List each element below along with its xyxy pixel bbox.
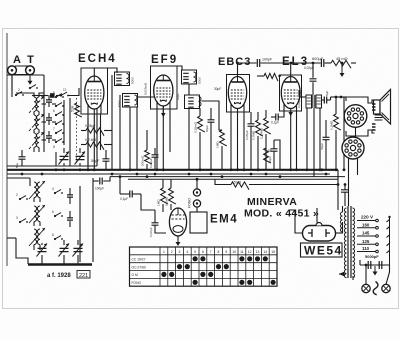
phono jacks FONO — [188, 178, 201, 208]
svg-text:5000: 5000 — [198, 77, 202, 84]
shield box ECH4 — [81, 68, 108, 114]
svg-text:50A: 50A — [71, 105, 75, 112]
wire screen feed — [274, 140, 280, 170]
coil L6 — [29, 228, 45, 250]
svg-text:8µF: 8µF — [325, 90, 329, 96]
svg-text:0,2 MΩ: 0,2 MΩ — [85, 138, 96, 142]
resistor 0,15MΩ — [260, 110, 271, 170]
svg-text:OC-27/60: OC-27/60 — [132, 265, 146, 269]
wire EL3 leads — [284, 63, 293, 170]
band switch S1 contacts — [55, 94, 64, 134]
svg-text:0,05µF: 0,05µF — [245, 130, 249, 140]
wire EF9 pins to bus — [157, 109, 170, 170]
svg-text:4: 4 — [52, 187, 54, 191]
tube ECH4 — [85, 76, 104, 109]
svg-text:0,7MΩ: 0,7MΩ — [252, 130, 256, 140]
label box WE54 — [301, 243, 343, 258]
label 10µF — [176, 93, 180, 100]
svg-text:6: 6 — [202, 250, 204, 254]
svg-text:15mΩ: 15mΩ — [232, 181, 242, 185]
tube EM4 magic eye — [169, 208, 186, 236]
svg-text:100µF: 100µF — [95, 187, 104, 191]
svg-text:1: 1 — [163, 250, 165, 254]
capacitor field bypass — [320, 120, 330, 170]
svg-text:WE54: WE54 — [304, 244, 343, 258]
table row labels — [132, 258, 146, 286]
variable capacitor CV2 — [59, 240, 70, 264]
resistor 0,05µF coupling — [81, 124, 112, 136]
antenna terminals A T — [8, 54, 41, 75]
tube EF9 — [154, 75, 173, 106]
svg-text:0,02µF: 0,02µF — [297, 98, 301, 108]
pilot lamp jack a — [362, 264, 370, 293]
wire tuner block 1 frame — [7, 75, 97, 166]
svg-text:145: 145 — [362, 231, 370, 236]
svg-text:MINERVA: MINERVA — [247, 196, 297, 208]
svg-text:221: 221 — [79, 273, 88, 279]
wire tuner block 2 outline — [7, 178, 93, 262]
svg-text:FONO: FONO — [132, 281, 142, 285]
ground bus tuner — [16, 238, 92, 265]
capacitor antenna series — [50, 93, 55, 98]
tube socket S-sp — [344, 105, 367, 128]
resistor 0,2MΩ — [81, 138, 112, 150]
svg-text:125: 125 — [362, 239, 370, 244]
capacitor 100pF top coupling — [238, 58, 292, 68]
svg-text:0,02µF: 0,02µF — [149, 227, 153, 237]
svg-text:2: 2 — [171, 250, 173, 254]
tube EBC3 — [228, 77, 246, 109]
resistor 1MΩ AF — [157, 179, 168, 212]
switch position digits tuner — [16, 88, 55, 237]
capacitor C5 — [67, 211, 73, 227]
svg-text:45 mΩ: 45 mΩ — [336, 56, 348, 61]
ground arrow filter caps — [373, 266, 378, 276]
svg-text:8: 8 — [53, 145, 55, 149]
wire EL3 anode to output transformer — [299, 90, 306, 97]
svg-text:6: 6 — [52, 210, 54, 214]
resistor 15mΩ feed — [215, 179, 338, 190]
band switch table grid — [130, 247, 278, 286]
variable capacitor CV-osc b — [75, 148, 86, 166]
capacitor HT filter — [341, 183, 349, 206]
svg-text:0,05µF: 0,05µF — [149, 158, 153, 168]
svg-text:8: 8 — [218, 250, 220, 254]
wire T1 to EF9 grid — [130, 76, 163, 170]
svg-text:100pF: 100pF — [262, 58, 273, 62]
svg-text:15: 15 — [271, 250, 275, 254]
switch S0 antenna — [15, 85, 38, 97]
svg-text:500mΩ: 500mΩ — [141, 155, 145, 166]
IF transformer T2 primary — [182, 70, 202, 84]
wire AVC bus — [110, 176, 345, 178]
svg-text:30µF: 30µF — [320, 143, 324, 150]
resistor 0,7MΩ — [252, 112, 263, 170]
resistor 0,5MΩ EF9 screen — [141, 130, 152, 170]
speaker socket plate — [346, 97, 376, 136]
variable capacitor CV3 — [73, 240, 84, 264]
svg-text:3: 3 — [16, 216, 18, 220]
svg-text:5000: 5000 — [131, 77, 135, 84]
wire ECH4 column verticals — [112, 75, 120, 170]
variable capacitor CV1 — [37, 243, 48, 264]
svg-text:EM4: EM4 — [210, 214, 238, 226]
band switch S2 contacts — [55, 103, 64, 143]
svg-text:3: 3 — [179, 250, 181, 254]
resistor 50A grid ECH4 — [71, 103, 82, 117]
capacitor 0,02µF EL3 anode — [291, 63, 317, 108]
svg-text:5: 5 — [194, 250, 196, 254]
coil L3 — [29, 132, 44, 152]
wire transformer bottom ground — [339, 272, 353, 280]
svg-text:4: 4 — [186, 250, 188, 254]
wire sockets to transformer — [349, 128, 358, 207]
capacitor 0,1µF coupling EL3 — [271, 110, 284, 125]
variable capacitor CV-osc a — [59, 148, 70, 166]
power transformer T4 core — [348, 206, 351, 278]
resistor 50µF cathode EL3 — [264, 148, 272, 170]
band switch S3 contacts — [19, 190, 63, 240]
capacitor 30µF screen EL3 — [268, 140, 278, 170]
svg-text:0,25mΩ: 0,25mΩ — [194, 121, 198, 133]
wire ECH4 pins to bus — [88, 114, 101, 170]
wire HT to transformer — [337, 170, 340, 210]
mains selector rail — [387, 216, 391, 265]
svg-text:13: 13 — [256, 250, 260, 254]
capacitor 0,05µF EBC3 out — [245, 112, 255, 170]
wire ECH4 cathode leads — [88, 104, 101, 170]
svg-text:10µF: 10µF — [176, 93, 180, 100]
resistor EL3 grid stopper — [257, 73, 281, 81]
wire detector to EBC3 — [189, 101, 222, 170]
svg-text:9: 9 — [225, 250, 227, 254]
svg-text:AT: AT — [13, 54, 41, 66]
voltage tap wires — [357, 219, 378, 253]
shield box EF9 — [151, 66, 178, 109]
wire EF9 anode to T2 — [163, 66, 189, 95]
svg-text:EBC3: EBC3 — [218, 56, 251, 68]
ground arrow tone network — [340, 63, 345, 77]
svg-text:30µF: 30µF — [268, 156, 272, 163]
wire cathode bus — [128, 178, 338, 180]
wire EF9 leads — [157, 101, 170, 170]
svg-text:ECH4: ECH4 — [78, 53, 117, 65]
wire EBC3 leads — [231, 63, 244, 170]
EM4 target screen box — [190, 207, 207, 233]
resistor 0,1MΩ field — [330, 96, 341, 170]
svg-text:60µF: 60µF — [205, 125, 209, 132]
wire ECH4 top lead — [94, 68, 117, 76]
tube socket S-we — [342, 137, 364, 159]
capacitor 50µF cathode — [91, 150, 110, 170]
output transformer T3 — [306, 95, 322, 108]
svg-text:8: 8 — [52, 233, 54, 237]
shield box EBC3 — [227, 75, 250, 113]
capacitor 60µF detector — [205, 108, 215, 170]
svg-text:0,025mΩ: 0,025mΩ — [144, 82, 148, 95]
wire tuner links — [42, 104, 57, 140]
svg-text:110: 110 — [362, 246, 370, 251]
capacitor 100µF AVC to tuner — [93, 177, 110, 191]
capacitor 0,1µF AF — [120, 177, 141, 201]
svg-text:10: 10 — [232, 250, 236, 254]
svg-text:220 V: 220 V — [361, 215, 374, 220]
svg-text:5000: 5000 — [118, 100, 122, 107]
svg-text:50µF: 50µF — [91, 159, 100, 163]
svg-text:50µ: 50µ — [15, 163, 19, 168]
svg-text:600µF: 600µF — [312, 56, 324, 61]
coil L2 — [29, 114, 44, 133]
svg-text:0,1MΩ: 0,1MΩ — [330, 120, 334, 130]
wire antenna lead — [11, 75, 13, 97]
svg-text:30µF: 30µF — [214, 87, 221, 91]
resistor 0,25MΩ detector — [194, 108, 205, 170]
wire EL3 pins to bus — [296, 106, 298, 170]
svg-text:0,1MΩ: 0,1MΩ — [165, 196, 169, 206]
wire antenna to ECH4 grid — [32, 88, 79, 96]
label 0,025mΩ EF9 grid — [144, 82, 148, 95]
svg-text:14: 14 — [263, 250, 267, 254]
switch antenna trimmer — [60, 88, 69, 97]
svg-text:12: 12 — [248, 250, 252, 254]
table column numbers — [163, 250, 275, 254]
wire EM4 ground — [176, 236, 181, 246]
wire heater bus — [7, 173, 330, 175]
svg-text:2: 2 — [16, 193, 18, 197]
svg-text:2: 2 — [18, 88, 20, 92]
svg-text:0,02µF: 0,02µF — [304, 66, 314, 70]
capacitor 0,05µF EF9 — [149, 148, 159, 170]
wire output transformer to bus — [307, 108, 320, 177]
capacitor C2 padder — [46, 113, 52, 125]
svg-text:EF9: EF9 — [151, 54, 178, 66]
wire switch bus — [44, 90, 64, 166]
svg-text:0,15MΩ: 0,15MΩ — [260, 127, 264, 139]
power transformer primary winding — [344, 208, 346, 278]
table contact dots — [161, 256, 275, 285]
svg-text:5000µF: 5000µF — [365, 254, 379, 259]
loudspeaker — [374, 90, 391, 125]
svg-text:1MΩ: 1MΩ — [216, 141, 220, 148]
wire speaker field return — [343, 97, 345, 170]
junction dots top wires — [236, 62, 343, 65]
svg-text:0,1µF: 0,1µF — [120, 197, 128, 201]
stamp a f. 1928 221 — [47, 271, 90, 280]
svg-text:0,1µF: 0,1µF — [271, 121, 279, 125]
svg-text:1MΩ: 1MΩ — [157, 199, 161, 206]
tube EL3 — [281, 77, 300, 109]
svg-text:7: 7 — [53, 127, 55, 131]
coil L1 antenna — [16, 93, 44, 115]
svg-text:a f. 1928: a f. 1928 — [47, 273, 71, 279]
wire WE54 leads — [290, 208, 343, 233]
tube WE54 rectifier — [303, 223, 336, 241]
capacitor 5000µF b — [379, 261, 382, 269]
ground arrow at T terminal — [28, 75, 33, 85]
WE54 filament winding — [341, 206, 343, 233]
pilot lamp jack b — [382, 265, 390, 293]
wire main HT bus thick — [7, 169, 338, 171]
coil L4 — [29, 181, 45, 202]
capacitor 8µF across primary — [322, 90, 331, 103]
IF transformer T1 secondary — [118, 94, 138, 108]
capacitor C4 — [67, 188, 73, 204]
shield box EL3 — [280, 75, 302, 111]
svg-text:7: 7 — [210, 250, 212, 254]
capacitor 0,02µF EM4 — [141, 194, 166, 237]
svg-text:O M: O M — [132, 273, 138, 277]
bus junction dots — [21, 168, 346, 178]
svg-text:11: 11 — [240, 250, 244, 254]
IF transformer T2 secondary / detector caps — [185, 87, 222, 109]
capacitor C1 padder — [46, 95, 52, 107]
wire to speaker socket — [331, 96, 347, 100]
svg-text:FONO: FONO — [188, 198, 192, 208]
svg-text:160: 160 — [362, 222, 370, 227]
capacitor 50µF antenna shunt — [15, 150, 26, 168]
svg-text:15: 15 — [63, 88, 67, 92]
svg-text:MOD. « 4451 »: MOD. « 4451 » — [244, 208, 319, 220]
mains switch — [373, 282, 378, 295]
svg-text:CC 19/27: CC 19/27 — [132, 258, 146, 262]
wire EBC3 pins to bus — [231, 112, 244, 170]
resistor 45mΩ — [331, 56, 356, 68]
svg-text:0,05µF: 0,05µF — [85, 124, 96, 128]
linkage dashed line tuner — [76, 98, 78, 164]
IF transformer T1 primary — [115, 72, 135, 86]
resistor 0,1MΩ AF — [165, 179, 176, 210]
capacitor 600µF tone — [291, 56, 331, 67]
capacitor C3 padder — [46, 131, 52, 143]
coil L5 — [29, 205, 45, 226]
wire filter bus — [360, 260, 390, 265]
resistor EBC3 grid leak — [216, 130, 227, 170]
capacitor 5000µF a — [368, 261, 371, 269]
svg-text:6: 6 — [53, 109, 55, 113]
power transformer secondary winding — [353, 208, 355, 278]
